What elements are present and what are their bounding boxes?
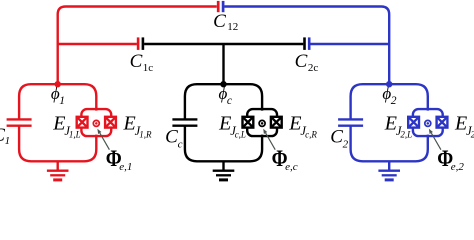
qubit loop c: lower wire	[185, 126, 262, 162]
qubit loop c: upper wire	[185, 84, 262, 119]
Josephson junction E_J2,R	[437, 117, 448, 128]
wire blue top rail down to node phi_2	[224, 7, 389, 85]
svg-text:C: C	[165, 126, 178, 147]
capacitor C12	[218, 1, 223, 12]
flux symbol (circled dot) of SQUID 1	[93, 120, 99, 126]
svg-text:e,1: e,1	[119, 161, 132, 173]
wire black rail from C1c to C2c	[144, 43, 303, 45]
svg-text:2: 2	[343, 138, 349, 150]
node phi_1 junction dot	[55, 81, 61, 87]
wire red branch to C1c	[58, 43, 137, 45]
arrow pointing to flux of SQUID 1	[97, 129, 109, 150]
svg-text:1: 1	[59, 95, 65, 107]
flux symbol (circled dot) of SQUID c	[259, 120, 265, 126]
svg-text:C: C	[330, 126, 343, 147]
svg-text:c: c	[227, 95, 232, 107]
Josephson junction E_J2,L	[408, 117, 419, 128]
wire black branch down to node phi_c	[222, 44, 224, 84]
Josephson junction E_Jc,L	[243, 117, 254, 128]
capacitor C2	[338, 119, 363, 125]
svg-text:c,R: c,R	[305, 130, 317, 140]
svg-text:c,L: c,L	[235, 130, 246, 140]
arrow pointing to flux of SQUID c	[263, 129, 275, 150]
arrow pointing to flux of SQUID 2	[429, 129, 441, 150]
svg-text:1,R: 1,R	[139, 130, 152, 140]
qubit loop 2: upper wire	[351, 84, 428, 119]
wire red feed from node phi_1 up to top rail	[58, 7, 217, 85]
capacitor C1	[7, 119, 32, 125]
capacitor C2c	[305, 37, 310, 50]
Josephson junction E_J1,R	[105, 117, 116, 128]
SQUID loop of qubit 1	[81, 109, 111, 136]
SQUID loop of qubit c	[247, 109, 277, 136]
svg-text:2c: 2c	[308, 62, 319, 74]
svg-text:1: 1	[5, 135, 11, 147]
ground of qubit 2	[378, 161, 400, 180]
svg-text:C: C	[295, 51, 308, 72]
svg-text:2: 2	[391, 95, 397, 107]
capacitor C1c	[138, 37, 143, 50]
svg-text:C: C	[213, 11, 226, 32]
Josephson junction E_Jc,R	[271, 117, 282, 128]
svg-text:e,2: e,2	[451, 161, 465, 173]
node phi_2 junction dot	[386, 81, 392, 87]
flux symbol (circled dot) of SQUID 2	[425, 120, 431, 126]
SQUID loop of qubit 2	[413, 109, 443, 136]
qubit loop 1: upper wire	[19, 84, 96, 119]
svg-text:12: 12	[227, 21, 238, 33]
wire blue from C2c to right rail	[310, 43, 388, 45]
capacitor Cc	[172, 119, 197, 125]
ground of qubit c	[213, 161, 235, 180]
svg-text:c: c	[178, 138, 183, 150]
svg-text:C: C	[130, 51, 143, 72]
svg-text:1,L: 1,L	[69, 130, 81, 140]
ground of qubit 1	[47, 161, 69, 180]
qubit loop 2: lower wire	[351, 126, 428, 162]
Josephson junction E_J1,L	[77, 117, 88, 128]
svg-text:2,L: 2,L	[400, 130, 412, 140]
svg-text:1c: 1c	[143, 62, 154, 74]
svg-text:e,c: e,c	[285, 161, 298, 173]
qubit loop 1: lower wire	[19, 126, 96, 162]
node phi_c junction dot	[220, 81, 226, 87]
